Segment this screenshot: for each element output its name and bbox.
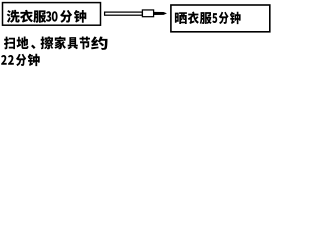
- text: 22分钟: [1, 54, 40, 66]
- text: 晒衣服5分钟: [175, 12, 241, 25]
- process box: dry clothes 5 min: [171, 5, 270, 32]
- block arrow tip: [153, 12, 167, 15]
- text: 洗衣服30分钟: [7, 10, 87, 23]
- text: 扫地、擦家具节约: [4, 36, 108, 50]
- process box: wash clothes 30 min: [3, 3, 101, 26]
- block arrow collar: [142, 10, 153, 17]
- block arrow body: [105, 12, 143, 15]
